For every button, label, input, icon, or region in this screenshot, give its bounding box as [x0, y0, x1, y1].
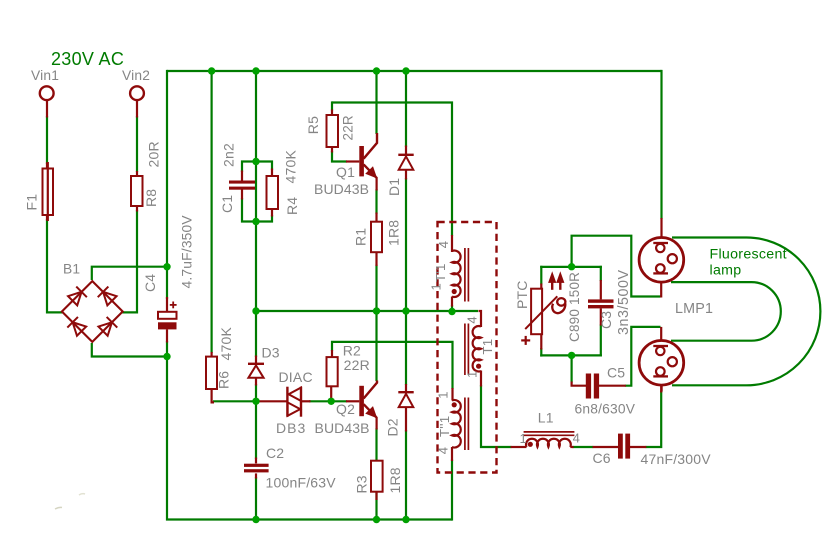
svg-text:B1: B1: [63, 262, 80, 277]
svg-text:1R8: 1R8: [387, 467, 403, 493]
svg-text:BUD43B: BUD43B: [314, 181, 369, 197]
svg-text:1R8: 1R8: [386, 220, 402, 246]
svg-text:R4: R4: [284, 197, 300, 215]
svg-text:lamp: lamp: [710, 262, 742, 278]
svg-text:D2: D2: [385, 418, 401, 436]
svg-text:470K: 470K: [218, 327, 234, 361]
svg-text:Vin2: Vin2: [122, 68, 150, 83]
svg-text:1: 1: [436, 391, 451, 399]
svg-text:1: 1: [520, 431, 528, 446]
svg-text:6n8/630V: 6n8/630V: [575, 402, 636, 417]
svg-text:LMP1: LMP1: [675, 301, 713, 317]
svg-text:4: 4: [436, 447, 451, 455]
svg-text:20R: 20R: [146, 141, 162, 167]
svg-text:Fluorescent: Fluorescent: [710, 246, 787, 262]
svg-text:BUD43B: BUD43B: [315, 420, 370, 436]
svg-text:Q1: Q1: [336, 164, 355, 180]
svg-text:C2: C2: [266, 445, 284, 461]
svg-text:R8: R8: [143, 189, 159, 207]
svg-text:C1: C1: [219, 195, 235, 213]
svg-text:C4: C4: [142, 274, 158, 292]
svg-text:47nF/300V: 47nF/300V: [641, 451, 712, 467]
svg-text:T1: T1: [480, 339, 495, 355]
svg-text:2n2: 2n2: [221, 143, 237, 167]
svg-text:PTC: PTC: [514, 280, 530, 309]
svg-text:T''1: T''1: [437, 416, 452, 437]
svg-text:3n3/500V: 3n3/500V: [616, 269, 632, 335]
svg-text:4: 4: [573, 430, 581, 445]
svg-text:L1: L1: [538, 410, 554, 426]
svg-text:4.7uF/350V: 4.7uF/350V: [180, 215, 195, 289]
svg-text:C890 150R: C890 150R: [567, 272, 582, 342]
svg-text:Q2: Q2: [336, 401, 355, 417]
svg-text:DB3: DB3: [276, 420, 306, 436]
svg-text:T'1: T'1: [433, 263, 448, 282]
svg-text:R3: R3: [354, 475, 370, 493]
svg-text:100nF/63V: 100nF/63V: [266, 475, 337, 491]
svg-text:R6: R6: [216, 371, 232, 389]
svg-text:C3: C3: [598, 311, 614, 329]
svg-text:Vin1: Vin1: [31, 68, 59, 83]
svg-text:D3: D3: [262, 344, 280, 360]
svg-text:C5: C5: [607, 364, 625, 380]
svg-text:230V AC: 230V AC: [51, 49, 124, 69]
svg-text:R1: R1: [353, 228, 369, 246]
svg-text:D1: D1: [386, 178, 402, 196]
svg-text:22R: 22R: [340, 115, 355, 140]
svg-text:C6: C6: [593, 450, 611, 466]
svg-text:22R: 22R: [344, 357, 370, 373]
svg-text:DIAC: DIAC: [279, 369, 313, 385]
svg-text:1: 1: [464, 370, 479, 378]
svg-text:R5: R5: [305, 116, 321, 134]
svg-text:F1: F1: [24, 194, 40, 211]
svg-text:470K: 470K: [283, 150, 299, 184]
svg-text:4: 4: [464, 316, 479, 324]
svg-text:1: 1: [429, 283, 444, 291]
svg-text:4: 4: [436, 241, 451, 249]
